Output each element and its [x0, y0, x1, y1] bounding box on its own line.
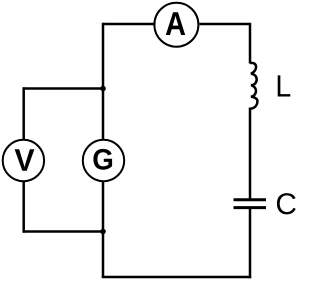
- capacitor C1 top plate: [234, 198, 267, 201]
- inductor L1 value label L: [278, 75, 291, 96]
- wire right vertical middle (inductor to capacitor): [249, 108, 252, 200]
- inductor L1 coil: [250, 63, 257, 109]
- wire voltmeter branch bottom horizontal: [23, 230, 104, 233]
- node junction lower: [100, 229, 106, 235]
- wire voltmeter branch left vertical upper (above V): [22, 87, 25, 139]
- wire bottom side: [102, 276, 251, 279]
- wire right vertical lower (below capacitor): [249, 208, 252, 279]
- capacitor C1 bottom plate: [234, 206, 267, 209]
- wire right vertical upper (above inductor): [249, 23, 252, 64]
- generator G1 label G: [93, 149, 112, 170]
- ammeter A1 label A: [166, 12, 185, 35]
- wire top-left segment (top side, left of ammeter): [103, 23, 154, 26]
- capacitor C1 value label C: [277, 193, 296, 214]
- wire top-right segment (top side, right of ammeter): [200, 23, 251, 26]
- wire left vertical upper (main loop, above G): [102, 23, 105, 140]
- wire left vertical lower (main loop, below G): [102, 182, 105, 279]
- wire voltmeter branch left vertical lower (below V): [22, 182, 25, 233]
- node junction upper: [100, 86, 106, 92]
- voltmeter V1 circle: [3, 140, 44, 181]
- wire voltmeter branch top horizontal: [23, 87, 104, 90]
- generator G1 circle: [83, 140, 124, 181]
- voltmeter V1 label V: [15, 149, 35, 170]
- ammeter A1 circle: [154, 3, 198, 47]
